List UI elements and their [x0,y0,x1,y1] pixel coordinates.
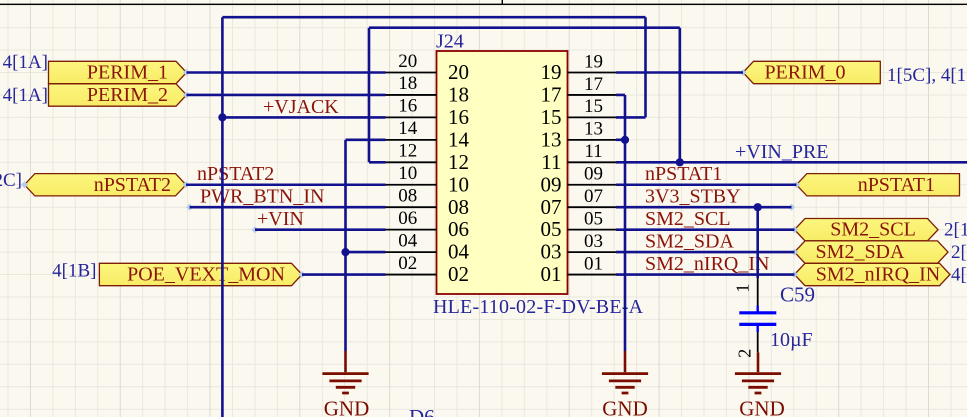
svg-text:10: 10 [448,172,469,196]
svg-text:nPSTAT2: nPSTAT2 [197,163,274,185]
svg-text:19: 19 [541,60,562,84]
svg-text:J24: J24 [436,31,464,53]
svg-text:GND: GND [602,397,648,417]
svg-text:PERIM_2: PERIM_2 [87,84,168,106]
svg-text:06: 06 [448,217,469,241]
svg-text:01: 01 [541,262,562,286]
svg-text:06: 06 [398,208,417,229]
svg-text:07: 07 [541,195,562,219]
svg-text:16: 16 [448,105,469,129]
svg-text:14: 14 [398,118,418,139]
svg-text:07: 07 [584,186,603,207]
svg-text:+VIN_PRE: +VIN_PRE [735,141,829,163]
svg-text:20: 20 [398,51,417,72]
svg-text:4[1A]: 4[1A] [3,85,48,106]
svg-text:10: 10 [398,163,417,184]
svg-text:13: 13 [541,127,562,151]
svg-text:2C]: 2C] [0,170,22,191]
svg-text:04: 04 [448,240,470,264]
svg-text:18: 18 [398,73,417,94]
svg-text:09: 09 [541,172,562,196]
svg-text:20: 20 [448,60,469,84]
svg-text:15: 15 [541,105,562,129]
svg-text:12: 12 [448,150,469,174]
svg-text:GND: GND [739,397,785,417]
svg-text:02: 02 [398,253,417,274]
svg-text:08: 08 [398,186,417,207]
svg-text:18: 18 [448,83,469,107]
svg-text:SM2_nIRQ_IN: SM2_nIRQ_IN [816,264,940,286]
svg-text:1[5C], 4[1: 1[5C], 4[1 [887,65,966,86]
svg-text:SM2_SCL: SM2_SCL [645,208,731,230]
svg-text:2[1: 2[1 [944,220,967,241]
svg-text:3V3_STBY: 3V3_STBY [645,186,741,208]
svg-text:PERIM_0: PERIM_0 [764,62,845,84]
svg-text:04: 04 [398,230,418,251]
svg-text:05: 05 [584,209,603,230]
svg-text:SM2_SCL: SM2_SCL [830,219,916,241]
svg-text:GND: GND [324,397,370,417]
svg-text:2: 2 [735,349,755,358]
svg-text:03: 03 [584,231,603,252]
svg-text:02: 02 [448,262,469,286]
svg-text:+VJACK: +VJACK [263,96,339,118]
svg-text:19: 19 [584,51,603,72]
svg-text:HLE-110-02-F-DV-BE-A: HLE-110-02-F-DV-BE-A [433,296,644,318]
svg-text:01: 01 [584,253,603,274]
svg-text:nPSTAT1: nPSTAT1 [645,163,722,185]
svg-text:nPSTAT1: nPSTAT1 [858,174,935,196]
svg-text:PERIM_1: PERIM_1 [87,62,168,84]
svg-text:05: 05 [541,217,562,241]
svg-text:SM2_nIRQ_IN: SM2_nIRQ_IN [645,253,769,275]
svg-text:+VIN: +VIN [257,208,304,230]
svg-text:16: 16 [398,96,417,117]
svg-text:12: 12 [398,141,417,162]
svg-text:08: 08 [448,195,469,219]
svg-text:14: 14 [448,127,470,151]
svg-text:15: 15 [584,96,603,117]
svg-text:SM2_SDA: SM2_SDA [816,241,905,263]
svg-text:POE_VEXT_MON: POE_VEXT_MON [127,264,285,286]
svg-text:4[: 4[ [951,264,967,285]
svg-text:D6: D6 [409,405,435,417]
svg-text:SM2_SDA: SM2_SDA [645,231,734,253]
svg-text:17: 17 [541,83,562,107]
svg-text:nPSTAT2: nPSTAT2 [94,174,171,196]
svg-text:4[1A]: 4[1A] [3,52,48,73]
svg-text:1: 1 [733,284,753,293]
svg-text:09: 09 [584,164,603,185]
svg-text:11: 11 [584,141,602,162]
svg-text:03: 03 [541,240,562,264]
svg-text:PWR_BTN_IN: PWR_BTN_IN [200,186,324,208]
svg-text:17: 17 [584,74,603,95]
svg-text:11: 11 [541,150,561,174]
svg-text:C59: C59 [780,283,815,307]
svg-text:13: 13 [584,119,603,140]
svg-text:10µF: 10µF [770,329,813,351]
svg-text:4[1B]: 4[1B] [52,261,96,282]
svg-text:2[: 2[ [951,242,967,263]
